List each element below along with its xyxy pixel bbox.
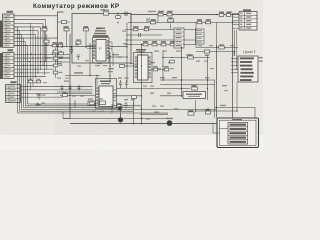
transistor Q3 blob [118, 106, 122, 110]
scan edge strip lower [0, 53, 2, 79]
label right of XT1 [259, 57, 263, 62]
wire second top bus [128, 22, 238, 24]
wire stub V1 [66, 28, 68, 47]
transistor Q2 [166, 118, 173, 126]
wire mid h57 [108, 56, 127, 58]
label above h75 [74, 72, 83, 73]
connector XP1 label [7, 11, 14, 13]
connector XP2 label [8, 49, 14, 51]
wire vertical v90 [89, 43, 91, 76]
wire vertical v195 [195, 100, 197, 111]
paper background [0, 0, 263, 150]
resistor R45 [63, 92, 68, 97]
wire h75 [65, 75, 100, 77]
capacitor C11 w label [188, 110, 194, 115]
capacitor C4 [77, 55, 81, 60]
output module box [217, 118, 259, 148]
capacitor C2 [139, 33, 141, 37]
capacitor C9 [78, 85, 81, 91]
box B2 [100, 101, 106, 105]
capacitor C12 [147, 18, 149, 22]
wire h95 left [60, 95, 96, 97]
resistor row R14 [170, 41, 175, 46]
resistor R26 [120, 65, 125, 68]
resistor R30 [206, 109, 211, 114]
resistor R18 [44, 40, 49, 46]
grid junction dots [21, 54, 48, 74]
resistor R37 [53, 50, 62, 53]
wire vertical v207 [207, 55, 209, 100]
wire vertical v236 [236, 30, 238, 70]
label C5 [118, 78, 122, 79]
resistor R10 [144, 26, 149, 31]
resistor R27 [192, 85, 198, 90]
frame left vertical [69, 34, 71, 119]
wire h58 left [55, 57, 70, 59]
relay box K1 [183, 92, 206, 99]
resistor row R11 [143, 41, 148, 46]
op-amp U1 (D1) with pins [93, 28, 110, 64]
wire vertical x112 bottom [111, 104, 113, 113]
wire h51 to XT1 [196, 52, 234, 57]
wire XP1 row7 long [14, 37, 58, 39]
wire bottom bus [70, 123, 217, 125]
wire h96 left [113, 95, 142, 97]
junction dot top [117, 13, 118, 16]
wire bottom h118 [63, 118, 168, 120]
connector XP3 body [6, 85, 21, 103]
resistor R15 [64, 26, 69, 31]
junction dot A [61, 46, 63, 48]
wire bus6 with resistor row [125, 44, 196, 46]
resistor row R12 [152, 41, 157, 46]
capacitor C10 [124, 102, 127, 109]
wires XP1 rows to inner bundle [14, 27, 28, 46]
resistor R44 [36, 79, 41, 83]
resistor row R13 [161, 41, 166, 46]
resistor R16 [84, 26, 89, 31]
scan shading top [0, 0, 263, 135]
resistor R36 [170, 60, 175, 63]
wire stub r33 [58, 21, 71, 23]
resistor R35 [164, 66, 169, 71]
wire vertical x216 top [216, 23, 218, 48]
wires XP2 rows [14, 54, 70, 76]
frame bottom corner [69, 118, 71, 120]
more labels [34, 31, 234, 120]
wires XP3 rows [21, 86, 93, 97]
connector XP2 body [3, 53, 15, 79]
resistor R42 [53, 71, 62, 74]
terminal block XT1 (dark rows) [231, 56, 258, 82]
wire vertical v163 [162, 50, 164, 80]
wire bus3 [125, 29, 196, 31]
junction dot E [78, 88, 79, 89]
title: Коммутатор режимов КР [33, 3, 120, 10]
junction dots 3 [96, 22, 172, 76]
wire vertical x97b [96, 76, 98, 87]
wire bottom h133 [213, 124, 220, 134]
wire h92 [57, 91, 92, 93]
resistor R21 [53, 52, 58, 58]
wire vertical x120 top [120, 104, 122, 117]
wire h62 mid [58, 61, 71, 63]
ink haze [55, 10, 235, 135]
wire U1 output [110, 46, 128, 48]
capacitor C1 on box1 top [121, 12, 131, 17]
resistor R39 [53, 64, 62, 67]
wire h96 right [160, 95, 183, 97]
wire vertical x158 [157, 15, 159, 23]
capacitor C7 [61, 85, 64, 91]
wire h66 [120, 65, 138, 67]
wire bend left frame [63, 112, 70, 119]
wire vertical x113 [112, 52, 114, 66]
svg-text:P: P [99, 46, 102, 51]
inner right frame vertical [216, 45, 218, 118]
wire vertical v141 [141, 45, 143, 124]
wire vertical v214 [214, 80, 216, 118]
value labels (illegible) [36, 11, 232, 113]
junction dot C [85, 46, 87, 48]
wire h88 right [116, 88, 190, 90]
inner wire bundle with nested corner bends [18, 27, 217, 113]
resistor R43 [28, 79, 33, 83]
capacitor C13 in bend area [37, 94, 45, 100]
resistor R40 on box1 top [103, 10, 109, 16]
resistor R4 [226, 12, 231, 16]
resistor R8 [168, 17, 174, 22]
scan shading bottom strip [0, 135, 263, 150]
resistor R7 [206, 19, 211, 24]
capacitor C6 [125, 80, 128, 88]
junction dots bottom [94, 103, 142, 124]
wire vertical v181 [181, 48, 183, 98]
diode VD1 [36, 103, 46, 107]
resistor R3 [219, 12, 224, 16]
relay contact stack K3 [196, 29, 205, 44]
main signal wire [56, 46, 93, 48]
wire stub V2 [85, 28, 87, 47]
junction dots 2 [57, 14, 217, 109]
wires into U1 left pins [87, 45, 102, 64]
wire h69 right of U2 [151, 69, 163, 71]
wire into XS2 [220, 128, 229, 130]
relay contact stack K2 [174, 28, 184, 48]
wire bus4 [127, 34, 162, 36]
wire h58 right [163, 57, 210, 59]
right frame vertical [232, 15, 234, 134]
junction dot F [69, 95, 70, 96]
grid verticals [31, 23, 47, 90]
resistor R5 [150, 19, 155, 24]
resistor R41 [116, 16, 121, 19]
resistor R38 [53, 57, 62, 60]
wire u1 right pins bus [110, 42, 113, 52]
resistor R29 [117, 105, 122, 111]
connector XP1 body [3, 14, 15, 47]
resistor R6 [197, 19, 202, 24]
resistor R2 [167, 11, 172, 16]
scan edge strip upper [0, 21, 2, 48]
junction dot B [71, 46, 73, 48]
capacitor C3 vertical [70, 47, 73, 54]
resistor R20 [58, 42, 63, 47]
wire h111 [196, 110, 237, 112]
wire vertical x75 bottom [74, 100, 76, 108]
connector XP3 label [11, 81, 17, 83]
resistor R32 [204, 50, 210, 56]
resistor R22 [59, 52, 64, 58]
junction dots [57, 14, 238, 119]
resistor R1 [158, 11, 163, 16]
svg-text:Коммутатор режимов КР: Коммутатор режимов КР [33, 3, 120, 10]
wire vertical v234 [234, 30, 236, 56]
connector XS1 (right top) [239, 9, 257, 30]
wire h107 [215, 107, 255, 109]
resistor R19 [52, 42, 57, 47]
resistor R25 [188, 54, 194, 59]
wire h114 [140, 113, 168, 115]
wire stub [207, 108, 209, 110]
wire h47 to XT1 [196, 47, 238, 49]
resistor R33 [62, 21, 67, 24]
label above R40 [101, 9, 106, 10]
wire h80 right [160, 79, 215, 81]
wire jog [130, 14, 132, 23]
resistor R31 [219, 44, 225, 49]
logic IC U2 (D2) with pins [134, 49, 153, 83]
capacitor C8 [69, 85, 72, 91]
wire top bus [131, 14, 239, 16]
wire vertical v133 [133, 100, 135, 124]
wire vertical x127 top [126, 23, 128, 41]
wire vertical v110 [109, 52, 111, 82]
transistor Q1 [118, 114, 123, 122]
module box1 outline [72, 14, 131, 64]
resistor R28 [132, 96, 137, 99]
box pair B1 [88, 101, 96, 106]
wires XP1 rows with vertical bends [14, 16, 58, 78]
resistor R23 [76, 39, 81, 44]
label C6 [125, 78, 129, 79]
wire h84 right [160, 84, 215, 86]
wires to XS1 [233, 13, 240, 28]
wire vertical v127 [126, 40, 128, 82]
junction dot D [69, 88, 70, 89]
wire XP1 row9 long [14, 44, 56, 46]
logic IC U3 (D3) with pins [96, 79, 117, 109]
resistor R17 [42, 26, 47, 31]
wire bus5 [125, 39, 197, 41]
wire XT1 bottom drop [236, 82, 238, 111]
frame bracket top-left [58, 12, 64, 66]
resistor R34 [153, 66, 158, 71]
resistor R9 [133, 26, 138, 31]
wire right drop [254, 108, 256, 119]
connector XS2 (bottom right) [228, 119, 248, 144]
scan noise [0, 0, 263, 149]
wire vertical x55 chain [55, 48, 57, 79]
wire stub R8 [170, 24, 172, 30]
wire conn stub [93, 46, 97, 48]
handwritten note [243, 50, 256, 55]
capacitor C5 [119, 80, 122, 88]
wire vertical x196 [195, 23, 197, 48]
